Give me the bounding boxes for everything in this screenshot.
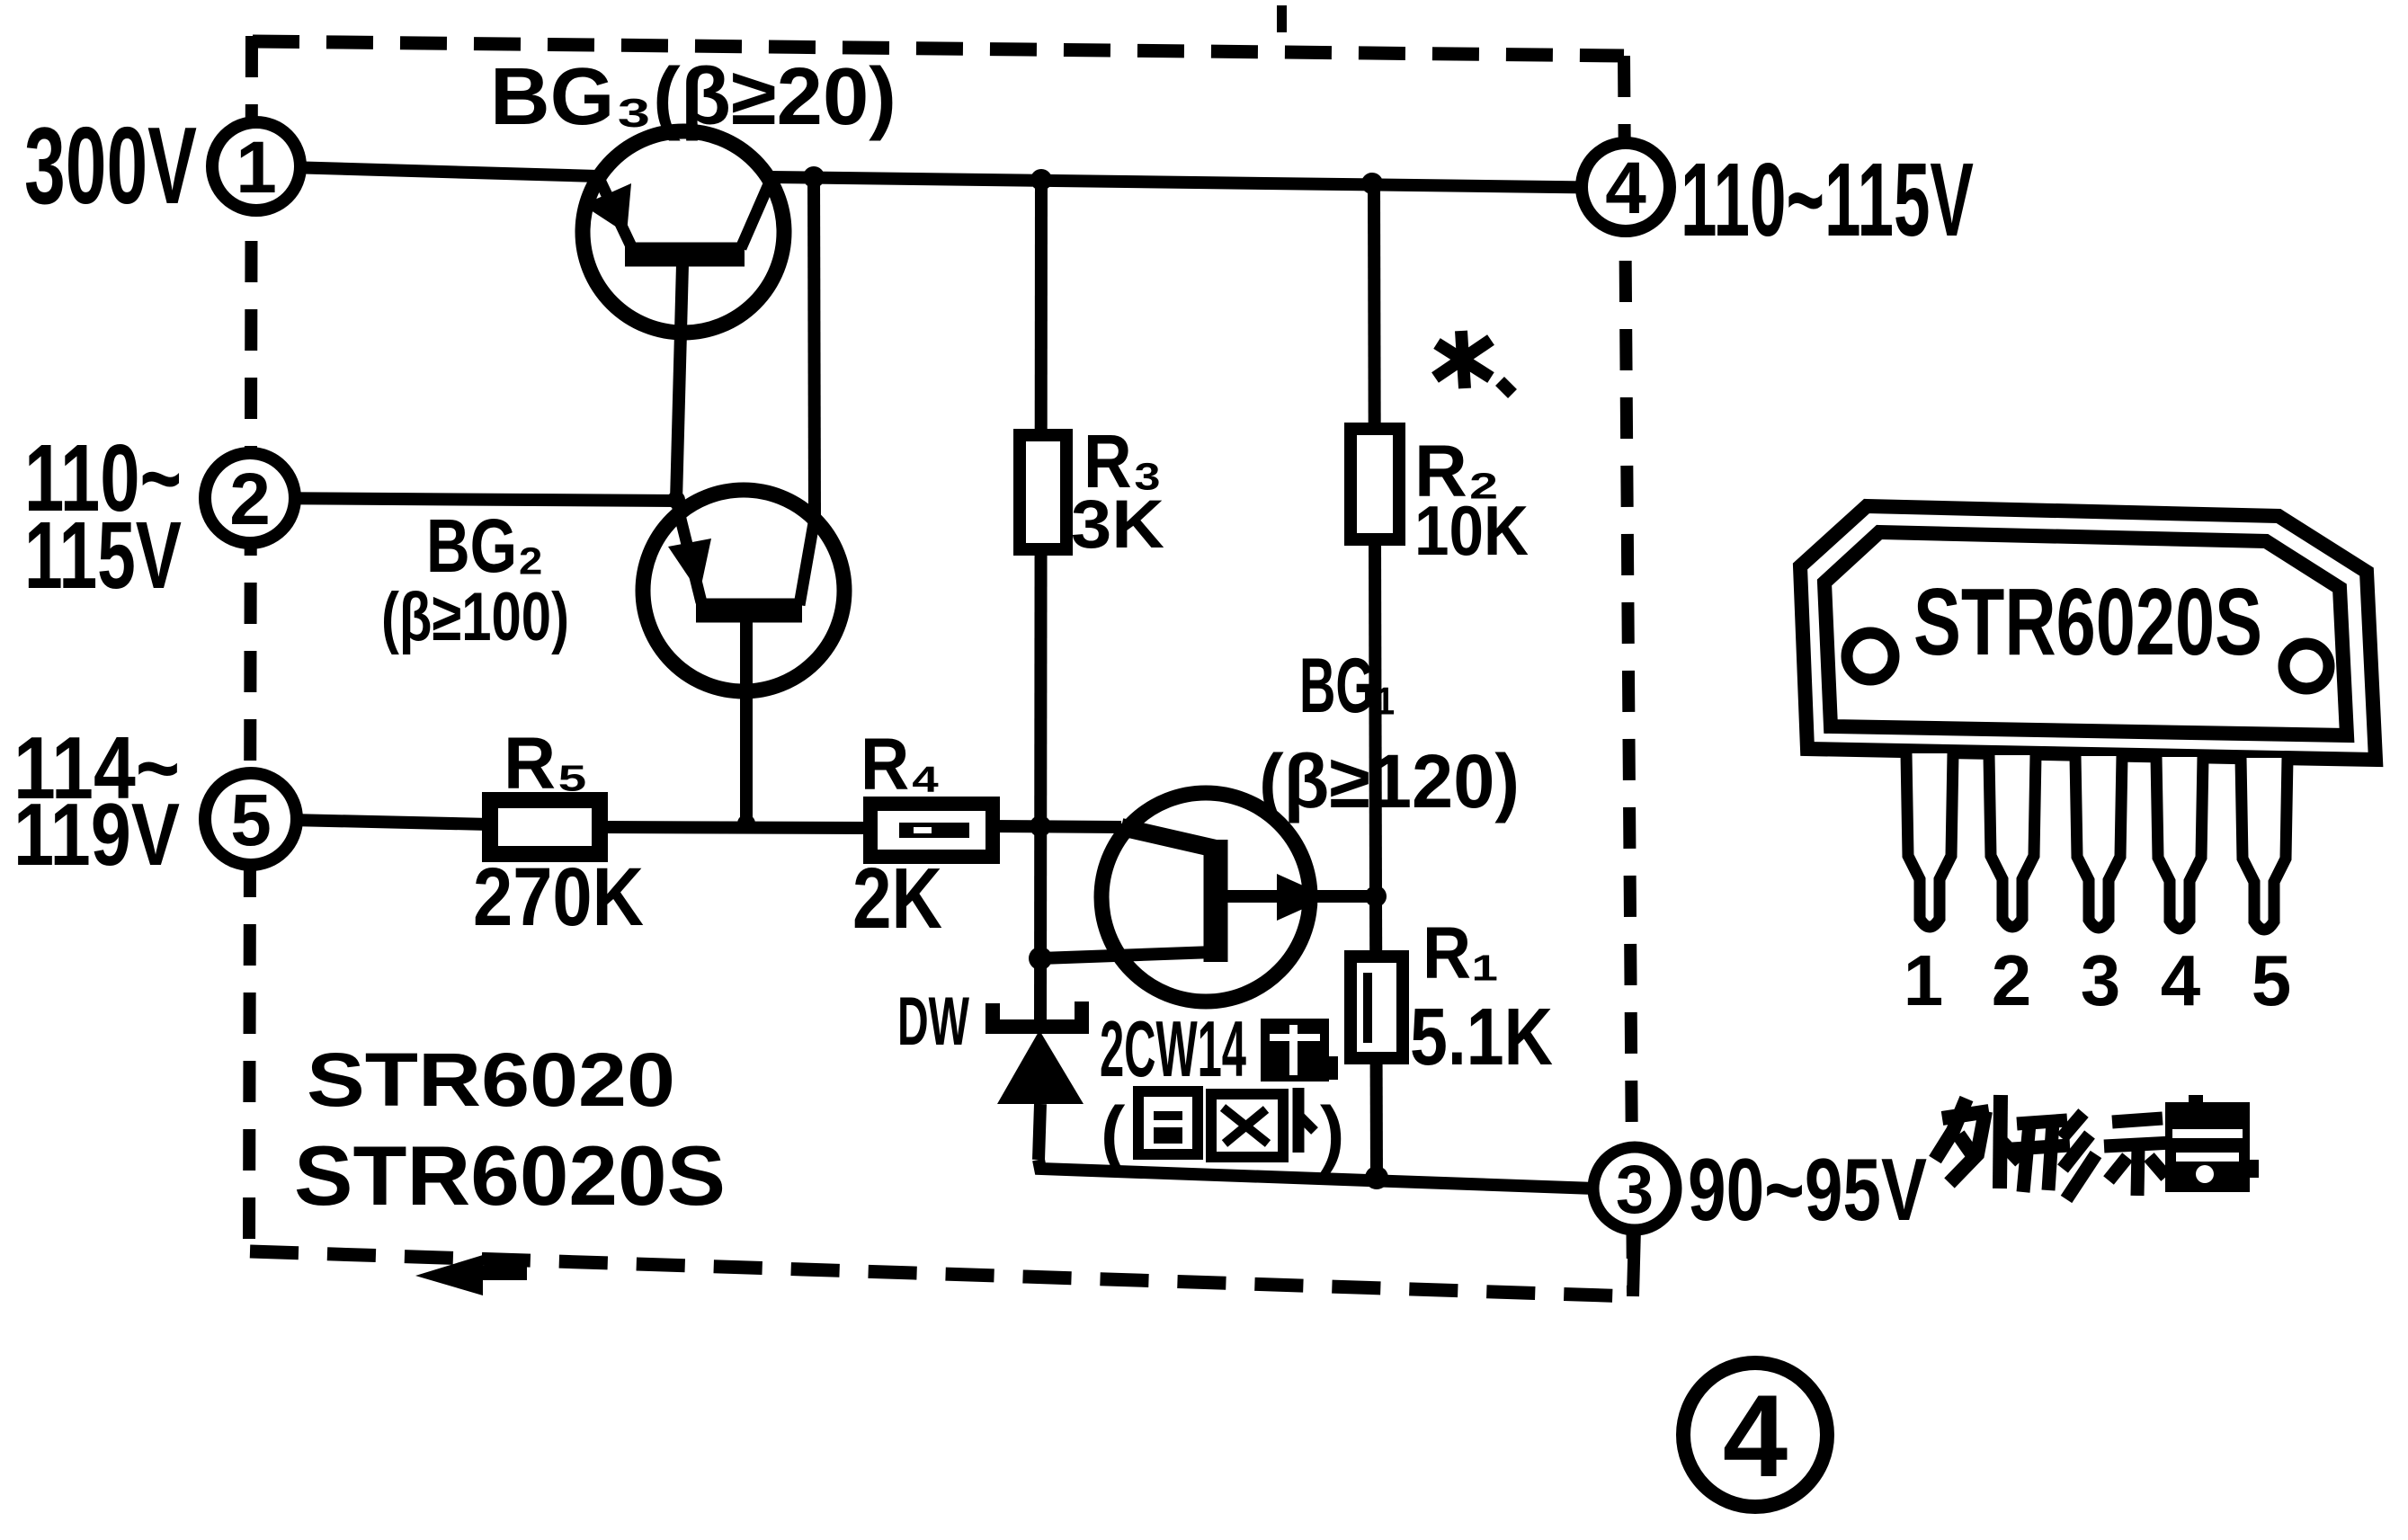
label BG2 [426, 503, 544, 588]
resistor R4 2K [870, 804, 993, 857]
svg-text:90~95V: 90~95V [1688, 1140, 1927, 1239]
wire vertical net R3 to zener DW [1040, 179, 1041, 1025]
package pin 1 [1906, 753, 1953, 927]
IC dashed boundary box left edge [249, 36, 252, 1251]
svg-text:(: ( [1101, 1092, 1126, 1174]
package pin 2 [1989, 755, 2036, 927]
package pin 3 [2075, 756, 2122, 928]
svg-text:4: 4 [2161, 940, 2201, 1020]
asterisk mark [1435, 331, 1512, 394]
svg-text:(β≥100): (β≥100) [381, 579, 569, 655]
svg-text:2K: 2K [852, 850, 942, 947]
label 3K [1071, 486, 1164, 563]
label 10K [1414, 491, 1529, 570]
figure number circled 4 [1683, 1363, 1827, 1507]
junction node BG2 base / R5 wire [737, 815, 755, 832]
zener diode DW [993, 1001, 1084, 1104]
terminal 1 [212, 122, 300, 210]
junction node on top wire at R3 [1030, 169, 1052, 191]
label R2 [1414, 431, 1500, 512]
label 110~115V terminal4 [1681, 141, 1974, 258]
svg-text:3: 3 [1616, 1152, 1654, 1228]
label (tong tu 1) note [1101, 1088, 1344, 1174]
svg-text:4: 4 [1605, 147, 1646, 229]
terminal 4 [1582, 143, 1670, 231]
svg-text:BG₁: BG₁ [1299, 643, 1396, 729]
label 2CW14 [1100, 1004, 1246, 1093]
label R1 [1423, 912, 1499, 994]
wire terminal5 to R5 [251, 819, 490, 824]
package label STR6020S [1913, 569, 2262, 675]
svg-text:2: 2 [1992, 940, 2032, 1020]
label BG1 [1299, 643, 1396, 729]
svg-text:10K: 10K [1414, 491, 1529, 570]
svg-text:R₁: R₁ [1423, 912, 1499, 994]
svg-text:3: 3 [2081, 940, 2121, 1020]
junction node BG3 base / terminal2 wire [667, 491, 685, 509]
svg-text:STR6020S: STR6020S [294, 1128, 726, 1223]
junction node on top wire at R2 [1361, 173, 1383, 194]
resistor R2 10K [1351, 429, 1399, 539]
wire terminal3 down to box corner [1633, 1228, 1635, 1296]
svg-text:119V: 119V [13, 785, 180, 884]
label STR6020S [294, 1128, 726, 1223]
svg-text:2: 2 [229, 458, 271, 540]
wire BG2 collector vertical [814, 177, 815, 517]
wire BG1 collector stub [1040, 952, 1214, 958]
svg-text:): ) [1320, 1092, 1344, 1174]
terminal 5 [205, 773, 297, 865]
label R3 [1084, 419, 1163, 503]
svg-text:R₄: R₄ [861, 724, 941, 806]
svg-text:1: 1 [1904, 940, 1944, 1020]
svg-text:BG₃(β≥20): BG₃(β≥20) [490, 52, 896, 142]
svg-text:R₅: R₅ [504, 723, 589, 805]
package pin numbers [1904, 940, 2292, 1020]
svg-text:1: 1 [236, 127, 277, 209]
svg-text:5: 5 [2252, 940, 2292, 1020]
wire BG3 base lead down [676, 264, 682, 501]
label 2K [852, 850, 942, 947]
resistor R3 3K [1020, 435, 1066, 549]
wire BG3 collector to terminal4 [770, 177, 1626, 188]
junction node R4 wire / vertical net [1030, 815, 1051, 837]
label R5 [504, 723, 589, 805]
resistor R5 270K [490, 800, 600, 854]
junction node BG1 emitter / R2-R1 [1365, 886, 1387, 907]
package pin 4 [2156, 757, 2203, 929]
IC dashed boundary box top edge [253, 41, 1624, 56]
wire R2 vertical [1374, 183, 1376, 896]
label R4 [861, 724, 941, 806]
label STR6020 [307, 1037, 675, 1122]
label 90~95V terminal3 [1688, 1140, 1927, 1239]
transistor BG3 [583, 131, 784, 333]
wire BG1 emitter to R1 [1217, 890, 1378, 903]
wire zener lead to bottom rail [1039, 1104, 1040, 1160]
label 270K [473, 851, 644, 943]
transistor BG2 [643, 490, 844, 691]
junction node on top wire at BG2 collector [803, 166, 825, 188]
wire terminal2 to BG2 emitter [250, 498, 676, 501]
arrow on bottom edge [415, 1255, 527, 1295]
label 110~115V terminal2 [24, 425, 182, 609]
IC dashed boundary box bottom edge [250, 1251, 1633, 1296]
label (beta>=100) [381, 579, 569, 655]
wire bottom rail to terminal3 [1039, 1160, 1595, 1188]
svg-text:300V: 300V [24, 104, 197, 227]
label 300V [24, 104, 197, 227]
junction node R1 / bottom rail [1365, 1166, 1388, 1189]
junction node BG1 collector / vertical net [1029, 947, 1052, 970]
IC dashed boundary box right edge [1624, 56, 1633, 1293]
svg-text:110~115V: 110~115V [1681, 141, 1974, 258]
svg-text:DW: DW [897, 984, 969, 1060]
wire R4 to BG1 base [991, 826, 1121, 827]
svg-text:5: 5 [230, 779, 272, 861]
label DW [897, 984, 969, 1060]
svg-text:2CW14: 2CW14 [1100, 1004, 1246, 1093]
stray tick above top edge [1277, 5, 1287, 32]
package mounting hole left [1847, 633, 1894, 680]
svg-text:3K: 3K [1071, 486, 1164, 563]
svg-text:(β≥120): (β≥120) [1259, 739, 1520, 823]
terminal 3 [1593, 1147, 1676, 1230]
label 114~119V terminal5 [13, 718, 180, 884]
svg-text:STR6020: STR6020 [307, 1037, 675, 1122]
label 5.1K [1410, 993, 1553, 1082]
wire R5 to R4 [599, 827, 872, 828]
wire R1 vertical [1376, 896, 1377, 1179]
wire terminal1 to BG3 emitter [256, 166, 598, 176]
transistor BG1 [1101, 793, 1329, 1001]
package outline STR6020S [1800, 506, 2376, 760]
svg-text:STR6020S: STR6020S [1913, 569, 2262, 675]
label wai xing shi yi (outline sketch) [1935, 1095, 2020, 1188]
svg-text:270K: 270K [473, 851, 644, 943]
label BG3 (beta>=20) [490, 52, 896, 142]
label (beta>=120) [1259, 739, 1520, 823]
svg-text:4: 4 [1723, 1370, 1788, 1501]
resistor R1 5.1K [1351, 957, 1403, 1058]
label zener type glyph [1261, 1019, 1338, 1082]
wire BG2 base lead down [740, 620, 753, 827]
package mounting hole right [2284, 644, 2329, 689]
package pin 5 [2241, 758, 2288, 930]
terminal 2 [205, 453, 295, 543]
svg-text:5.1K: 5.1K [1410, 993, 1553, 1082]
svg-text:BG₂: BG₂ [426, 503, 544, 588]
svg-text:115V: 115V [24, 503, 182, 609]
